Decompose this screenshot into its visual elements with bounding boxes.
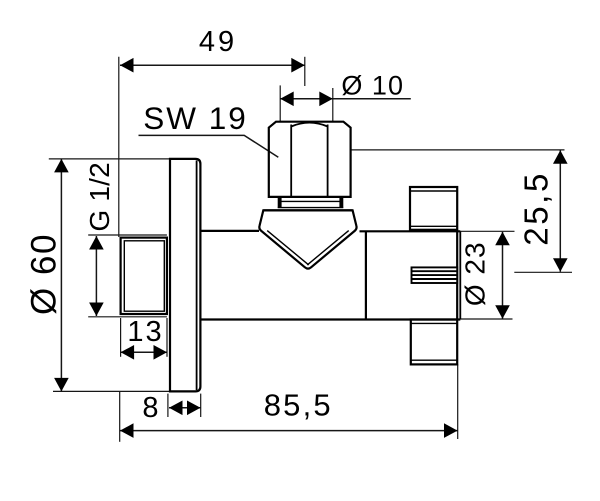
dimension 25,5 line (559, 150, 561, 271)
svg-text:Ø 60: Ø 60 (24, 233, 63, 315)
dimension Ø23 arrow bottom (495, 305, 510, 319)
svg-text:Ø 23: Ø 23 (460, 241, 491, 306)
dimension Ø10 extension line right (332, 88, 334, 122)
dimension Ø23 extension line bottom (460, 318, 512, 320)
svg-text:49: 49 (199, 26, 237, 58)
handle top section outline (410, 187, 457, 230)
dimension 13 arrow right (154, 345, 168, 360)
dimension 49 arrow right (291, 58, 305, 73)
svg-text:25,5: 25,5 (517, 171, 554, 246)
dimension Ø10 extension line left (279, 85, 281, 121)
hex nut facet line right (327, 125, 329, 197)
dimension G 1/2 arrow top (89, 236, 104, 250)
dimension G 1/2 line (95, 236, 97, 316)
label SW 19 leader line (139, 135, 279, 157)
dimension 85,5 line (120, 430, 458, 432)
dimension 49 extension line left (thread end face) (118, 57, 120, 237)
compression ring right end (filled) (339, 197, 343, 207)
cone flare top line (263, 209, 352, 211)
svg-text:Ø 10: Ø 10 (341, 70, 404, 100)
dimension 8 arrow right (187, 401, 201, 416)
dimension 49 line (120, 64, 305, 66)
dimension 13 line (121, 351, 167, 353)
svg-text:85,5: 85,5 (264, 387, 333, 422)
handle top section inner line upper (410, 190, 457, 192)
dimension 49 extension line right (outlet axis) (304, 57, 306, 86)
dimension Ø10 line (280, 98, 411, 100)
svg-text:G 1/2: G 1/2 (84, 162, 115, 231)
valve head left boundary line (365, 231, 367, 319)
dimension 25,5 extension line bottom (514, 271, 572, 273)
dimension Ø23 extension line top (460, 230, 514, 232)
dimension Ø10 arrow left (280, 92, 294, 107)
dimension 13 arrow left (121, 345, 135, 360)
hex nut SW 19 outline (269, 122, 351, 197)
knurled grip band stripes (412, 271, 458, 279)
dimension 13 extension line left (120, 318, 122, 357)
dimension Ø60 extension line bottom (53, 390, 170, 392)
dimension Ø60 arrow bottom (54, 378, 69, 392)
svg-text:8: 8 (142, 392, 158, 424)
dimension 25,5 arrow bottom (553, 258, 568, 272)
dimension G 1/2 extension line bottom (88, 316, 167, 318)
wall flange inner edge line (196, 161, 198, 391)
dimension 8 extension line left (167, 394, 169, 417)
dimension 85,5 extension line left (119, 391, 121, 441)
compression ring bottom line (278, 207, 344, 209)
svg-text:SW 19: SW 19 (143, 100, 248, 136)
wall flange outline (170, 159, 200, 392)
knurled grip band frame (412, 267, 458, 283)
body tube top line right segment (360, 230, 461, 232)
handle bottom section inner line upper (411, 322, 457, 324)
dimension 49 arrow left (120, 58, 134, 73)
cone funnel (outlet seat) (259, 210, 356, 268)
valve head right end face (459, 231, 461, 319)
dimension Ø60 arrow top (54, 159, 69, 173)
thread G 1/2 outer outline (121, 238, 167, 314)
dimension 85,5 arrow right (444, 423, 458, 438)
hex nut top chamfer curve (291, 123, 327, 127)
compression ring left end (filled) (278, 197, 282, 207)
handle right silhouette line (456, 230, 458, 320)
dimension Ø60 extension line top (49, 158, 170, 160)
dimension G 1/2 extension line top (88, 234, 167, 236)
dimension 8 arrow left (169, 401, 183, 416)
dimension Ø23 arrow top (495, 232, 510, 246)
hex nut facet line left (290, 125, 292, 197)
dimension G 1/2 arrow bottom (89, 303, 104, 317)
thread G 1/2 inner outline (124, 241, 164, 311)
dimension 8 line (169, 407, 201, 409)
compression ring mid line (281, 200, 340, 202)
cone inner line right (307, 231, 348, 265)
svg-text:13: 13 (127, 316, 163, 348)
dimension 85,5 arrow left (120, 423, 134, 438)
dimension 8 extension line right (200, 394, 202, 417)
handle bottom section outline (411, 320, 457, 365)
dimension 85,5 extension line right (457, 364, 459, 439)
cone inner line left (267, 231, 309, 265)
dimension 13 extension line right (166, 318, 168, 357)
dimension 25,5 extension line top (351, 149, 565, 151)
dimension Ø23 line (502, 232, 504, 319)
dimension 25,5 arrow top (553, 150, 568, 164)
dimension Ø10 arrow right (319, 92, 333, 107)
body tube top line left segment (201, 230, 259, 232)
body tube bottom line (201, 318, 460, 320)
dimension Ø60 line (60, 159, 62, 392)
handle top section inner line lower (410, 225, 457, 227)
handle bottom section inner line lower (411, 359, 457, 361)
